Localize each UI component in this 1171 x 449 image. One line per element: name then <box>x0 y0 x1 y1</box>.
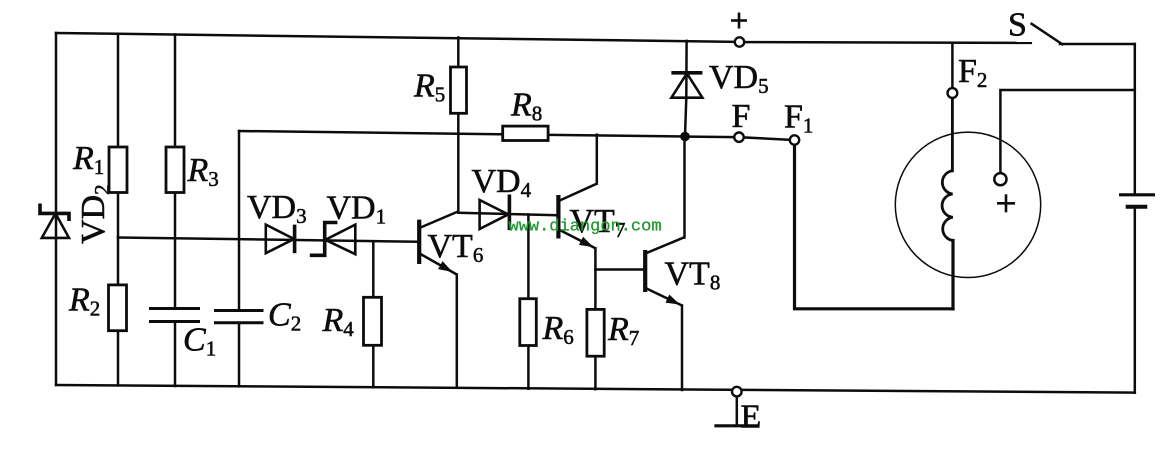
resistor R6 <box>520 299 537 346</box>
resistor R2 <box>109 285 127 331</box>
generator housing circle <box>895 132 1040 277</box>
svg-text:www.diangon.com: www.diangon.com <box>509 218 662 237</box>
wire middle bus dot to F <box>690 135 735 138</box>
terminal F <box>734 133 743 142</box>
resistor R4 <box>364 297 382 345</box>
resistor R8 <box>503 126 548 140</box>
wire branch R1 R2 <box>117 34 120 386</box>
wire VT6 emitter vertical <box>456 275 459 388</box>
terminal F1 <box>790 135 799 144</box>
field coil <box>942 171 953 241</box>
wire VD5 branch <box>685 41 687 137</box>
capacitor C1 <box>149 309 200 322</box>
wire F to F1 <box>744 137 791 139</box>
wire VT6 collector to VD4 and VT7 base <box>458 213 556 215</box>
wire R6 vertical <box>527 215 530 389</box>
wire bottom bus <box>56 385 1135 393</box>
wire F2 drop from top <box>951 43 954 88</box>
label plus top <box>731 13 747 29</box>
wire R4 vertical <box>372 241 375 387</box>
VT7 emitter arrow <box>579 237 594 247</box>
switch S blade <box>1032 24 1063 45</box>
wire F2 to coil <box>951 98 954 171</box>
wire R5 vertical <box>457 38 460 212</box>
wire branch R3 C1 upper <box>174 35 177 309</box>
wire top bus left <box>56 33 735 42</box>
diode VD3 <box>266 225 295 254</box>
wire top bus right <box>744 41 1031 44</box>
node dot junction <box>680 132 690 142</box>
wire left vertical <box>55 33 58 385</box>
wire branch C2 upper <box>238 131 241 311</box>
wire middle bus <box>239 131 685 137</box>
wire top right to corner <box>1060 43 1135 46</box>
battery short plate <box>1126 205 1148 209</box>
transistor VT6 <box>419 212 458 275</box>
VT8 emitter arrow <box>666 295 681 305</box>
wire right vertical to battery <box>1134 44 1137 194</box>
diode VD5 <box>671 73 702 98</box>
svg-text:F: F <box>732 98 751 135</box>
label plus brush <box>997 194 1015 212</box>
wire VT8 emitter vertical <box>681 306 684 391</box>
terminal E with ground <box>732 387 742 397</box>
resistor R5 <box>451 67 467 113</box>
resistor R7 <box>587 309 604 356</box>
wire battery to bottom <box>1134 208 1137 393</box>
wire F1 down and right to coil <box>795 145 954 309</box>
wire brush terminal up and right <box>1000 90 1134 173</box>
zener diode VD1 <box>310 223 356 256</box>
wire base bus left <box>118 238 417 242</box>
wire coil bottom <box>951 241 954 309</box>
zener diode VD2 <box>40 204 69 238</box>
transistor VT7 <box>558 184 596 249</box>
terminal F2 <box>948 88 958 98</box>
resistor R3 <box>166 147 184 193</box>
wire VT7 collector vertical <box>596 135 599 184</box>
wire branch R3 C1 lower <box>174 322 177 387</box>
wire VT7 emitter to VT8 base <box>595 268 643 271</box>
wire branch C2 lower <box>238 323 241 387</box>
capacitor C2 <box>214 311 264 323</box>
brush terminal circle <box>994 173 1006 185</box>
wire VT8 collector vertical <box>683 137 686 238</box>
diode VD4 <box>480 195 510 231</box>
battery long plate <box>1119 193 1155 196</box>
resistor R1 <box>109 147 127 193</box>
wire VT7 emitter vertical R7 <box>594 248 597 389</box>
terminal plus top <box>735 37 744 46</box>
transistor VT8 <box>645 237 684 305</box>
VT6 emitter arrow <box>438 261 453 272</box>
svg-text:S: S <box>1008 7 1027 44</box>
svg-text:E: E <box>741 399 762 436</box>
